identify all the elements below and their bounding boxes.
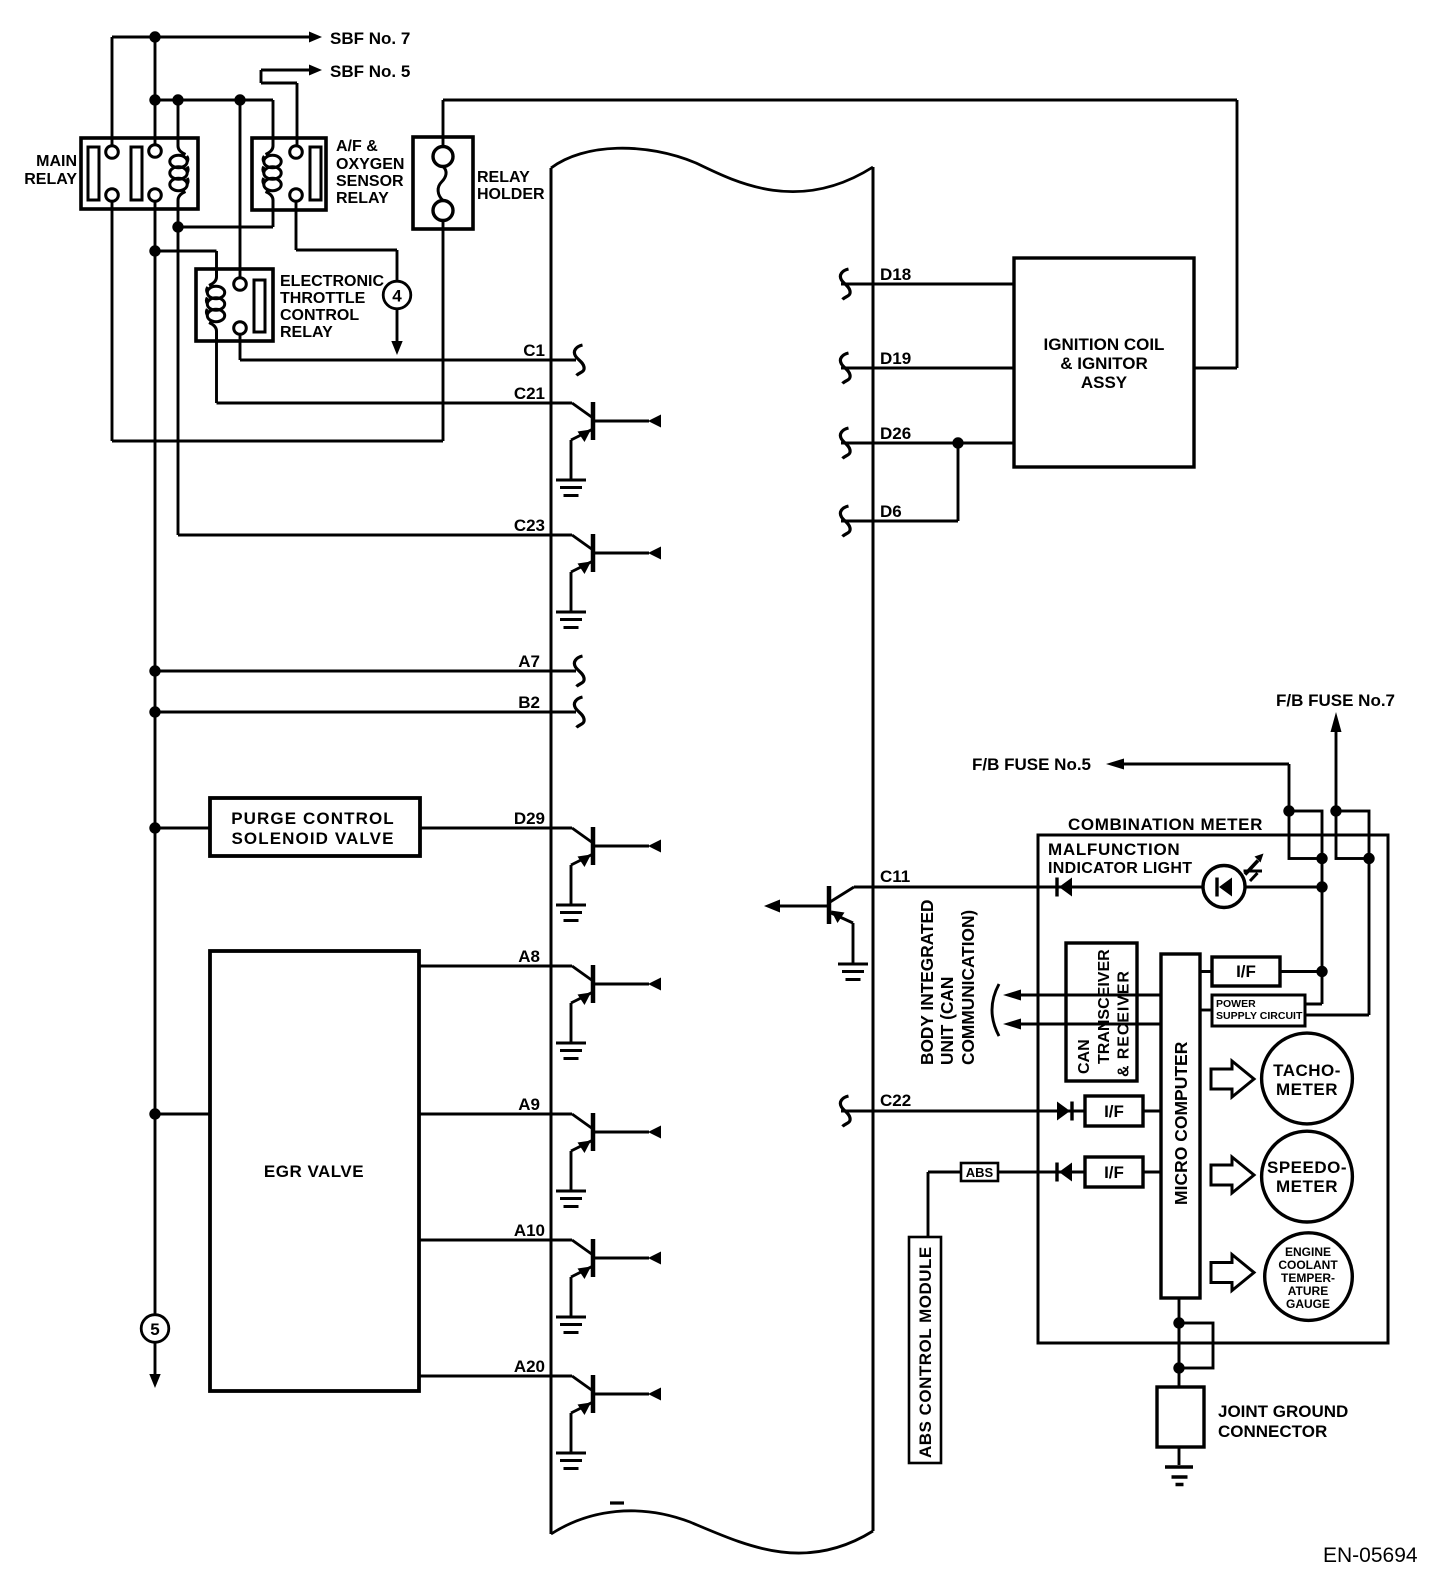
- svg-text:SUPPLY CIRCUIT: SUPPLY CIRCUIT: [1216, 1010, 1303, 1022]
- CAN arc: [992, 984, 999, 1036]
- svg-text:& RECEIVER: & RECEIVER: [1116, 970, 1133, 1077]
- svg-text:OXYGEN: OXYGEN: [336, 156, 404, 173]
- svg-text:I/F: I/F: [1104, 1102, 1124, 1121]
- svg-text:C21: C21: [514, 384, 545, 403]
- wire micro computer to ground: [1178, 1298, 1181, 1465]
- transistor driver D29: [556, 827, 661, 921]
- wire EGR to pin A9: [419, 1113, 572, 1116]
- svg-text:COOLANT: COOLANT: [1278, 1258, 1338, 1272]
- connector mark pin D18: [840, 269, 850, 300]
- svg-text:A7: A7: [518, 652, 540, 671]
- wire pin C22 chain: [841, 1110, 1161, 1113]
- svg-text:RELAY: RELAY: [477, 169, 530, 186]
- arrow below circled 4: [396, 309, 399, 342]
- wire A/F pin bottom to circled 4: [296, 201, 397, 281]
- wire bus to purge valve: [155, 827, 210, 830]
- connector mark pin D6: [840, 506, 850, 537]
- connector circled 4: [383, 281, 411, 309]
- node junction B2: [149, 706, 160, 717]
- wire micro to power supply stub: [1200, 1009, 1212, 1012]
- relay K3 ELECTRONIC THROTTLE CONTROL RELAY box: [196, 269, 273, 341]
- svg-text:ATURE: ATURE: [1288, 1284, 1328, 1298]
- svg-text:TEMPER-: TEMPER-: [1281, 1271, 1335, 1285]
- wire main relay coil bottom to C23: [177, 209, 180, 535]
- node junction I/F1 supply: [1316, 966, 1327, 977]
- svg-text:SOLENOID VALVE: SOLENOID VALVE: [231, 829, 394, 848]
- svg-text:MALFUNCTION: MALFUNCTION: [1048, 840, 1180, 859]
- svg-text:THROTTLE: THROTTLE: [280, 290, 366, 307]
- svg-text:IGNITION COIL: IGNITION COIL: [1044, 335, 1165, 354]
- svg-text:RELAY: RELAY: [24, 171, 77, 188]
- svg-text:MAIN: MAIN: [36, 153, 77, 170]
- wire C11 to MIL LED: [854, 886, 1322, 889]
- wire ETC pin top lead: [239, 100, 242, 278]
- svg-text:PURGE CONTROL: PURGE CONTROL: [231, 809, 395, 828]
- svg-text:COMMUNICATION): COMMUNICATION): [958, 910, 978, 1065]
- joint ground connector box: [1157, 1387, 1204, 1447]
- svg-text:ABS CONTROL MODULE: ABS CONTROL MODULE: [916, 1246, 935, 1458]
- diode C22 line: [1057, 1102, 1072, 1121]
- wire EGR to pin A8: [419, 965, 572, 968]
- ignition coil and ignitor assy box: [1014, 258, 1194, 467]
- wire A/F relay coil bottom lead: [178, 210, 273, 227]
- ground symbol joint connector: [1165, 1467, 1193, 1485]
- wire CAN high with arrow: [1020, 994, 1137, 997]
- wire power bus y=100: [155, 100, 273, 138]
- wire EGR to pin A20: [419, 1375, 572, 1378]
- wire CAN box to micro computer: [1137, 995, 1161, 1024]
- wire bus to EGR valve: [155, 1113, 210, 1116]
- svg-text:HOLDER: HOLDER: [477, 186, 545, 203]
- pin circle A/F relay top: [290, 146, 303, 159]
- node junction ground 1: [1173, 1317, 1184, 1328]
- svg-text:D18: D18: [880, 265, 911, 284]
- node junction bus/main coil column: [149, 94, 160, 105]
- svg-text:METER: METER: [1276, 1177, 1338, 1196]
- node junction fuse7: [1330, 805, 1341, 816]
- connector mark pin B2: [574, 697, 584, 728]
- interface box I/F 1: [1212, 957, 1280, 986]
- svg-text:ELECTRONIC: ELECTRONIC: [280, 273, 384, 290]
- relay K1 MAIN RELAY box: [81, 138, 198, 209]
- engine coolant temperature gauge circle: [1265, 1233, 1353, 1321]
- wire ETC relay coil top lead: [155, 251, 217, 269]
- svg-text:D19: D19: [880, 349, 911, 368]
- svg-text:SBF No. 5: SBF No. 5: [330, 62, 410, 81]
- pin circle main relay 2 top: [149, 145, 162, 158]
- combination meter box: [1038, 835, 1388, 1343]
- wire main relay coil top lead: [177, 100, 180, 138]
- wire ETC coil bottom to pin C21: [217, 341, 573, 403]
- ECM left edge: [550, 168, 553, 1534]
- wire pin D6: [841, 443, 958, 521]
- node junction meter supply 1: [1316, 853, 1327, 864]
- svg-text:MICRO COMPUTER: MICRO COMPUTER: [1171, 1041, 1191, 1205]
- node junction ETC coil feed: [149, 245, 160, 256]
- svg-text:SPEEDO-: SPEEDO-: [1267, 1158, 1347, 1177]
- svg-text:D26: D26: [880, 424, 911, 443]
- svg-text:F/B FUSE No.5: F/B FUSE No.5: [972, 755, 1091, 774]
- wire ETC pin bottom to pin C1: [240, 334, 576, 360]
- wire ABS chain: [928, 1172, 1161, 1237]
- svg-text:RELAY: RELAY: [280, 324, 333, 341]
- contact plate A/F relay: [310, 147, 321, 200]
- connector loop ground: [1179, 1323, 1213, 1368]
- svg-text:A/F &: A/F &: [336, 138, 378, 155]
- wire SBF No.7 feed: [112, 37, 310, 146]
- LED malfunction indicator light: [1203, 866, 1245, 908]
- svg-text:EN-05694: EN-05694: [1323, 1544, 1418, 1567]
- pin circle ETC relay top: [234, 278, 247, 291]
- svg-text:A10: A10: [514, 1221, 545, 1240]
- speedometer circle: [1262, 1131, 1353, 1222]
- diode ABS line: [1057, 1163, 1072, 1182]
- diode MIL line: [1057, 878, 1072, 897]
- fuse circle top relay holder: [433, 147, 453, 167]
- CAN transceiver and receiver box: [1066, 943, 1137, 1081]
- transistor driver A9: [556, 1113, 661, 1207]
- arrow F/B FUSE No.7: [1335, 731, 1338, 811]
- pin circle main relay 1 top: [106, 146, 119, 159]
- svg-text:D29: D29: [514, 809, 545, 828]
- wire meter supply 2: [1305, 859, 1369, 1016]
- node junction main relay coil top: [172, 94, 183, 105]
- tachometer circle: [1262, 1033, 1353, 1124]
- svg-text:CONTROL: CONTROL: [280, 307, 359, 324]
- coil ETC relay: [206, 269, 224, 340]
- svg-text:CAN: CAN: [1076, 1039, 1093, 1074]
- node junction D26/D6: [952, 437, 963, 448]
- connector mark pin C22: [840, 1096, 850, 1127]
- wire CAN low with arrow: [1020, 1023, 1137, 1026]
- wire main relay pin1 bottom to relay holder: [112, 201, 443, 441]
- wire pin B2: [155, 711, 576, 714]
- pin circle A/F relay bottom: [290, 189, 303, 202]
- block arrow speedometer: [1211, 1157, 1254, 1193]
- wire pin D18 to ignition coil: [841, 283, 1014, 286]
- EGR valve box: [210, 951, 419, 1391]
- transistor driver A20: [556, 1375, 661, 1469]
- svg-text:SENSOR: SENSOR: [336, 173, 404, 190]
- transistor driver C23: [556, 534, 661, 628]
- relay holder box: [413, 137, 473, 229]
- ECM right edge: [872, 167, 875, 1531]
- svg-text:RELAY: RELAY: [336, 190, 389, 207]
- arrow below circled 5: [154, 1342, 157, 1375]
- svg-text:TACHO-: TACHO-: [1273, 1061, 1341, 1080]
- connector mark pin D19: [840, 353, 850, 384]
- svg-text:COMBINATION METER: COMBINATION METER: [1068, 815, 1263, 834]
- svg-text:SBF No. 7: SBF No. 7: [330, 29, 410, 48]
- svg-text:D6: D6: [880, 502, 902, 521]
- svg-text:5: 5: [150, 1320, 159, 1339]
- block arrow tachometer: [1211, 1061, 1254, 1097]
- contact plate 1 main relay: [88, 147, 99, 200]
- micro computer box: [1161, 954, 1200, 1298]
- svg-text:C23: C23: [514, 516, 545, 535]
- svg-text:TRANSCEIVER: TRANSCEIVER: [1096, 949, 1113, 1064]
- arrow F/B FUSE No.5 wire: [1123, 764, 1289, 811]
- fuse circle bottom relay holder: [433, 201, 453, 221]
- ECM top wavy edge: [551, 148, 873, 192]
- svg-text:A9: A9: [518, 1095, 540, 1114]
- node junction EGR feed: [149, 1108, 160, 1119]
- wire purge valve to pin D29: [420, 827, 572, 830]
- wire left bus vertical: [154, 37, 157, 1315]
- relay K2 A/F &amp; OXYGEN SENSOR RELAY box: [252, 138, 326, 210]
- connector loop fuse5: [1289, 811, 1322, 859]
- wire top bus to ignition coil: [443, 100, 1237, 368]
- transistor driver A10: [556, 1239, 661, 1333]
- node junction purge feed: [149, 822, 160, 833]
- svg-text:I/F: I/F: [1236, 962, 1256, 981]
- wire SBF No.5 feed: [261, 70, 310, 146]
- connector loop fuse7: [1336, 811, 1369, 859]
- LED light arrow: [1245, 861, 1258, 875]
- node junction meter supply 2: [1363, 853, 1374, 864]
- svg-text:JOINT GROUND: JOINT GROUND: [1218, 1402, 1348, 1421]
- pin circle ETC relay bottom: [234, 322, 247, 335]
- node junction ground 2: [1173, 1362, 1184, 1373]
- svg-text:BODY INTEGRATED: BODY INTEGRATED: [917, 900, 937, 1065]
- node junction MIL/supply: [1316, 881, 1327, 892]
- wire pin A7: [155, 670, 576, 673]
- transistor driver A8: [556, 965, 661, 1059]
- wire main coil return to pin C23: [178, 534, 572, 537]
- ECM bottom wavy edge: [551, 1511, 873, 1553]
- coil A/F relay: [263, 138, 281, 209]
- transistor driver C21: [556, 402, 661, 496]
- node junction A/F coil return: [172, 221, 183, 232]
- svg-text:ENGINE: ENGINE: [1285, 1245, 1331, 1259]
- connector mark pin D26: [840, 428, 850, 459]
- fuse link squiggle relay holder: [438, 167, 446, 201]
- svg-text:B2: B2: [518, 693, 540, 712]
- node junction SBF7/bus: [149, 31, 160, 42]
- svg-text:CONNECTOR: CONNECTOR: [1218, 1422, 1327, 1441]
- interface box I/F 2: [1085, 1096, 1143, 1126]
- ABS tag box: [961, 1163, 998, 1181]
- wire pin D19 to ignition coil: [841, 367, 1014, 370]
- purge control solenoid valve box: [210, 798, 420, 856]
- arrow SBF No.5: [309, 65, 322, 76]
- connector circled 5: [141, 1315, 169, 1343]
- svg-text:ASSY: ASSY: [1081, 373, 1128, 392]
- svg-text:4: 4: [392, 287, 402, 306]
- wire EGR to pin A10: [419, 1239, 572, 1242]
- wire meter supply 1: [1305, 859, 1322, 1005]
- svg-text:INDICATOR LIGHT: INDICATOR LIGHT: [1048, 860, 1192, 877]
- interface box I/F 3: [1085, 1157, 1143, 1187]
- svg-text:UNIT (CAN: UNIT (CAN: [937, 977, 957, 1065]
- power supply circuit box: [1212, 995, 1305, 1026]
- connector mark pin A7: [574, 656, 584, 687]
- svg-text:EGR VALVE: EGR VALVE: [264, 1162, 364, 1181]
- svg-text:F/B FUSE No.7: F/B FUSE No.7: [1276, 691, 1395, 710]
- svg-text:C11: C11: [880, 867, 910, 886]
- svg-text:A8: A8: [518, 947, 540, 966]
- block arrow temperature gauge: [1211, 1255, 1254, 1291]
- contact plate ETC relay: [254, 280, 265, 332]
- minus mark inside ECM: [610, 1501, 624, 1504]
- svg-text:METER: METER: [1276, 1080, 1338, 1099]
- svg-text:POWER: POWER: [1216, 998, 1256, 1010]
- svg-text:C22: C22: [880, 1091, 911, 1110]
- svg-text:A20: A20: [514, 1357, 545, 1376]
- connector mark pin C1: [574, 345, 584, 376]
- wire relay holder top lead: [442, 100, 445, 147]
- wire I/F1 stubs: [1200, 970, 1322, 973]
- wire pin D26 to ignition coil: [841, 442, 1014, 445]
- ABS control module box: [909, 1237, 941, 1463]
- svg-text:C1: C1: [523, 341, 545, 360]
- node junction A7: [149, 665, 160, 676]
- transistor driver C11: [764, 886, 868, 980]
- pin circle main relay 1 bottom: [106, 189, 119, 202]
- node junction ETC relay feed: [234, 94, 245, 105]
- contact plate 2 main relay: [131, 147, 142, 200]
- coil main relay: [170, 138, 188, 209]
- arrow SBF No.7: [309, 32, 322, 43]
- svg-text:I/F: I/F: [1104, 1163, 1124, 1182]
- node junction fuse5: [1283, 805, 1294, 816]
- svg-text:& IGNITOR: & IGNITOR: [1060, 354, 1148, 373]
- pin circle main relay 2 bottom: [149, 189, 162, 202]
- svg-text:ABS: ABS: [966, 1165, 994, 1180]
- svg-text:GAUGE: GAUGE: [1286, 1297, 1330, 1311]
